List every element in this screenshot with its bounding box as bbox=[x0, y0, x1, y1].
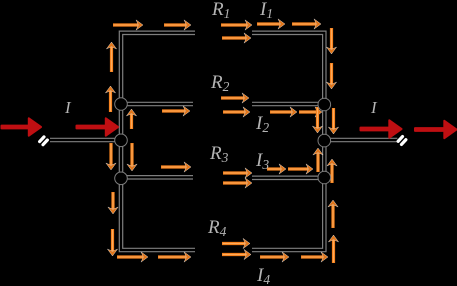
svg-text:I1: I1 bbox=[259, 0, 273, 21]
svg-text:R3: R3 bbox=[209, 143, 229, 165]
svg-text:I3: I3 bbox=[255, 150, 269, 172]
svg-text:I4: I4 bbox=[256, 265, 270, 286]
svg-text:I: I bbox=[64, 98, 72, 117]
svg-text:R2: R2 bbox=[210, 72, 230, 94]
svg-text:I2: I2 bbox=[255, 113, 269, 135]
svg-text:I: I bbox=[370, 98, 378, 117]
svg-text:R4: R4 bbox=[207, 217, 227, 239]
svg-text:R1: R1 bbox=[211, 0, 230, 21]
